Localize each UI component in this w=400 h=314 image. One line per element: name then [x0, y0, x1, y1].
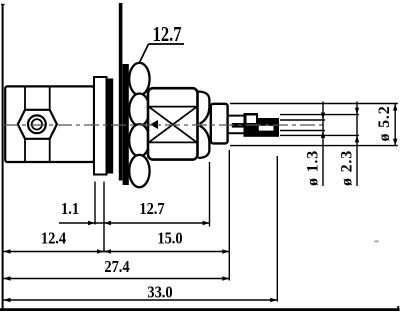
- extension line nut rear: [209, 162, 211, 227]
- hex nut facet line bottom: [148, 141, 198, 143]
- contact pin top edge: [228, 115, 244, 117]
- extension line dia5.2 top: [230, 103, 398, 105]
- scan speckle: [375, 241, 379, 243]
- knurled nut lobe 3: [129, 124, 149, 156]
- knurled nut lobe 4: [129, 155, 149, 187]
- bayonet stud inner circle: [32, 119, 42, 129]
- svg-text:27.4: 27.4: [104, 258, 130, 276]
- top label leader: [139, 44, 149, 64]
- hex nut X diagonal 2: [150, 107, 197, 142]
- nut rear chamfer upper bump: [198, 92, 209, 124]
- bayonet stud outer circle: [28, 115, 46, 133]
- svg-text:12.4: 12.4: [41, 230, 67, 248]
- extension line dia5.2 bottom: [230, 145, 398, 147]
- rear step cylinder: [211, 104, 228, 144]
- centerline: [3, 124, 324, 126]
- hex nut facet line top: [148, 106, 198, 108]
- dimension line dia1.3: [321, 102, 325, 187]
- dimension line dia2.3: [355, 102, 359, 187]
- extension line dia1.3 bottom: [280, 130, 325, 132]
- svg-text:33.0: 33.0: [147, 283, 173, 301]
- hex nut X diagonal 1: [150, 107, 197, 142]
- dimension line 27.4: [4, 276, 230, 280]
- bayonet boss hexagon: [18, 110, 57, 139]
- solder lug white slot: [259, 126, 274, 131]
- svg-text:15.0: 15.0: [157, 230, 183, 248]
- knurled nut lobe 1: [129, 63, 149, 95]
- extension line cylinder end: [228, 150, 230, 281]
- frame left border: [1, 4, 5, 310]
- dimension line 12.4 / 15.0: [4, 249, 230, 253]
- extension line dia2.3 bottom: [280, 134, 359, 136]
- frame bottom border: [0, 306, 400, 310]
- contact pin bottom edge: [228, 132, 244, 134]
- mounting flange: [94, 77, 107, 175]
- body inner line 2: [49, 86, 51, 162]
- dimension line 1.1 / 12.7: [59, 221, 210, 225]
- svg-text:1.1: 1.1: [61, 200, 79, 218]
- svg-text:ø 2.3: ø 2.3: [339, 150, 356, 186]
- solder lug white notch: [247, 116, 257, 124]
- svg-text:ø 5.2: ø 5.2: [376, 106, 393, 142]
- top label underline: [149, 43, 185, 45]
- body inner line 1: [24, 86, 26, 162]
- nut rear chamfer lower bump: [198, 126, 209, 158]
- BNC body outline: [5, 86, 94, 162]
- panel line: [119, 3, 123, 181]
- hex nut body: [148, 88, 198, 159]
- solder lug block 2: [258, 118, 279, 137]
- contact pin middle bar: [232, 123, 244, 128]
- extension line dia1.3 top: [280, 119, 325, 121]
- extension line dia2.3 top: [280, 114, 359, 116]
- solder lug block 1: [244, 113, 259, 137]
- knurled nut inner sleeve (dark): [123, 64, 129, 185]
- knurled nut lobe 2: [129, 94, 149, 126]
- svg-text:12.7: 12.7: [139, 200, 165, 218]
- lock washer (dark): [107, 79, 113, 174]
- extension line lug end: [276, 156, 278, 302]
- svg-text:ø 1.3: ø 1.3: [305, 150, 322, 186]
- extension line flange left: [94, 182, 96, 225]
- dimension line 33.0: [4, 298, 278, 302]
- hex nut left vertex blob: [150, 120, 158, 129]
- extension line flange right: [103, 182, 105, 253]
- dimension line dia5.2: [393, 104, 397, 146]
